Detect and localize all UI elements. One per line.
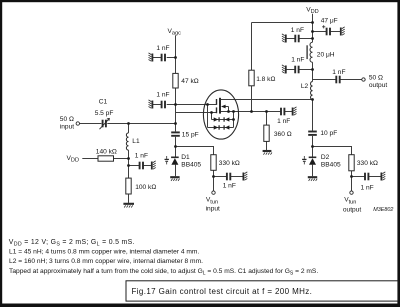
- wire 10pF to D2: [312, 136, 314, 157]
- svg-text:BB405: BB405: [321, 161, 341, 168]
- svg-text:L1: L1: [132, 138, 140, 145]
- wire VDD top column: [312, 14, 314, 43]
- resistor 360: [264, 125, 269, 141]
- svg-text:100 kΩ: 100 kΩ: [135, 184, 156, 191]
- node gate2 bias junction: [174, 103, 177, 106]
- wire 140k to node B: [114, 158, 129, 160]
- capacitor 1nF vtun input: [227, 173, 230, 181]
- diode D2 BB405: [302, 156, 316, 165]
- svg-text:C1: C1: [99, 98, 108, 105]
- wire 47k to input column: [175, 88, 177, 124]
- wire 1nF to 20uH node: [299, 69, 313, 71]
- capacitor 1nF 20uH: [295, 66, 298, 74]
- wire Vagc lead: [175, 36, 177, 74]
- wire gate2 diode vertical: [207, 105, 209, 128]
- wire 1.8k bottom: [251, 86, 253, 112]
- wire ground to 1nF 20uH: [286, 69, 295, 71]
- node D1 branch junction: [174, 145, 177, 148]
- node VDD rail junction: [311, 21, 314, 24]
- svg-text:output: output: [369, 82, 388, 89]
- wire 1nF to ground vtun out: [369, 176, 381, 178]
- node input-column junction: [174, 122, 177, 125]
- protection diode row1 left bar: [218, 117, 220, 121]
- wire source node to 360: [266, 112, 268, 126]
- terminal 50ohm input: [76, 122, 79, 125]
- ground 47uF: [341, 27, 345, 36]
- svg-text:140 kΩ: 140 kΩ: [96, 148, 117, 155]
- wire C1 to node A: [107, 123, 175, 125]
- wire vtun out node to 1nF: [352, 176, 366, 178]
- wire bulk horizontal: [225, 106, 229, 108]
- node bulk junction: [227, 110, 230, 113]
- ground gate2 1nF: [149, 100, 153, 109]
- svg-text:50 Ω: 50 Ω: [369, 74, 383, 81]
- svg-text:1 nF: 1 nF: [291, 56, 304, 63]
- svg-text:1 nF: 1 nF: [156, 45, 169, 52]
- transistor channel bar: [219, 98, 221, 114]
- capacitor 1nF gate2: [162, 101, 165, 109]
- node 140k junction: [127, 157, 130, 160]
- wire 1nF g2 to node: [167, 104, 176, 106]
- wire 100k to ground: [128, 194, 130, 203]
- ground 360: [263, 151, 272, 155]
- wire source: [221, 111, 267, 113]
- node vtun input junction: [212, 175, 215, 178]
- capacitor 1nF vdd: [295, 35, 298, 43]
- wire node A to 15pF: [175, 124, 177, 132]
- resistor 47k: [173, 73, 178, 88]
- svg-text:15 pF: 15 pF: [182, 131, 199, 138]
- capacitor 10pF: [308, 132, 317, 135]
- wire node A to L1: [128, 124, 130, 133]
- ground 100k: [123, 204, 134, 208]
- svg-text:L2 = 160 nH; 3 turns 0.8 mm co: L2 = 160 nH; 3 turns 0.8 mm copper wire,…: [9, 258, 203, 265]
- diode D1 BB405: [165, 156, 179, 165]
- wire 360 to ground: [266, 141, 268, 150]
- svg-text:L2: L2: [301, 83, 309, 90]
- svg-text:1 nF: 1 nF: [361, 185, 374, 192]
- svg-text:M3E802: M3E802: [373, 207, 393, 213]
- node 1.8k source junction: [250, 110, 253, 113]
- ground agc top 1nF: [149, 53, 153, 62]
- node D2 branch junction: [311, 145, 314, 148]
- wire 1nF to ground right: [285, 111, 293, 113]
- wire 330k left bottom: [213, 170, 215, 191]
- protection diode row1 right bar: [223, 117, 225, 121]
- wire source diode vertical: [233, 112, 235, 128]
- wire source node to 1nF: [267, 111, 281, 113]
- ground D1: [170, 177, 179, 181]
- terminal 50ohm output: [362, 78, 365, 81]
- wire ground to 1nF agc: [153, 57, 162, 59]
- svg-text:5.5 pF: 5.5 pF: [95, 110, 114, 117]
- wire vtun in node to 1nF: [214, 176, 227, 178]
- svg-text:330 kΩ: 330 kΩ: [219, 160, 240, 167]
- inductor L1: [126, 133, 128, 150]
- wire drain node to 10pF: [312, 100, 314, 131]
- svg-text:output: output: [343, 206, 362, 213]
- node gate2 inner junction: [206, 103, 209, 106]
- svg-text:10 pF: 10 pF: [320, 130, 337, 137]
- wire output cap to terminal: [340, 79, 362, 81]
- wire diode row2: [208, 127, 234, 129]
- wire ground to 1nF vdd: [286, 38, 295, 40]
- svg-text:1 nF: 1 nF: [332, 69, 345, 76]
- resistor 100k: [126, 178, 131, 194]
- wire drain: [221, 99, 313, 101]
- node vtun output junction: [350, 175, 353, 178]
- ground vtun output 1nF: [381, 172, 385, 181]
- svg-text:1 nF: 1 nF: [135, 153, 148, 160]
- wire 47uF to ground: [330, 31, 340, 33]
- svg-text:360 Ω: 360 Ω: [274, 131, 292, 138]
- svg-text:50 Ω: 50 Ω: [60, 116, 74, 123]
- node gate1 inner junction: [210, 111, 213, 114]
- node diode row1 junction: [232, 118, 235, 121]
- wire gate1: [176, 112, 217, 114]
- resistor 330k left: [211, 155, 216, 171]
- wire 1nF agc to node: [167, 57, 176, 59]
- capacitor 1nF agc top: [162, 54, 165, 62]
- protection diode row2 right bar: [223, 125, 225, 129]
- node 20uH bottom junction: [311, 68, 314, 71]
- capacitor 1nF output: [336, 76, 339, 84]
- wire 20uH bottom to L2: [312, 62, 314, 81]
- capacitor 1nF bias: [140, 162, 143, 170]
- protection diode row2 left bar: [218, 125, 220, 129]
- transistor bulk arrow: [221, 105, 226, 109]
- capacitor 47uF: [327, 28, 330, 36]
- polarity plus 47uF: [322, 25, 325, 28]
- capacitor 1nF vtun output: [365, 173, 368, 181]
- ground 20uH 1nF: [282, 65, 286, 74]
- wire D2 to ground: [312, 165, 314, 177]
- wire 1.8k top: [251, 23, 253, 71]
- wire gate2: [176, 104, 217, 106]
- node source diode junction: [232, 110, 235, 113]
- transistor gate2 bar: [216, 99, 218, 105]
- wire D1 to ground: [175, 165, 177, 177]
- wire L1 to 100k: [128, 150, 130, 178]
- node 1nF bias junction: [127, 164, 130, 167]
- resistor 1.8k: [249, 70, 254, 86]
- capacitor 1nF source: [281, 108, 284, 116]
- ground vdd 1nF: [282, 34, 286, 43]
- svg-text:1 nF: 1 nF: [291, 27, 304, 34]
- svg-text:330 kΩ: 330 kΩ: [357, 160, 378, 167]
- svg-text:1.8 kΩ: 1.8 kΩ: [256, 76, 275, 83]
- node 1nF vdd junction: [311, 37, 314, 40]
- wire node to 47uF: [313, 31, 327, 33]
- wire 330k right bottom: [351, 171, 353, 191]
- protection diode row1 left: [214, 117, 219, 121]
- protection diode row1 right: [225, 117, 230, 121]
- svg-text:L1 = 45 nH; 4 turns 0.8 mm cop: L1 = 45 nH; 4 turns 0.8 mm copper wire, …: [9, 249, 199, 256]
- wire D2 node to 330k right: [313, 147, 352, 155]
- wire VDD rail: [252, 22, 313, 24]
- svg-text:D2: D2: [321, 154, 330, 161]
- terminal Vtun input: [212, 191, 215, 194]
- wire 1nF vdd to column: [299, 38, 313, 40]
- ground D2: [308, 177, 317, 181]
- resistor 330k right: [349, 155, 354, 171]
- protection diode row2 right: [225, 125, 230, 129]
- wire 1nF to ground vtun in: [230, 176, 243, 178]
- svg-text:20 μH: 20 μH: [317, 51, 335, 58]
- node agc 1nF junction: [174, 56, 177, 59]
- inductor L2: [311, 82, 313, 100]
- ground bias 1nF: [152, 161, 156, 170]
- svg-text:input: input: [206, 206, 220, 213]
- wire gate1 diode vertical: [211, 113, 213, 120]
- wire 15pF to D1 node: [175, 137, 177, 157]
- caption box: [126, 281, 398, 301]
- transistor U1 dual-gate MOSFET envelope: [203, 90, 238, 139]
- svg-text:47 kΩ: 47 kΩ: [181, 78, 198, 85]
- ground source 1nF: [293, 107, 297, 116]
- wire bulk vertical: [228, 107, 230, 112]
- node 360 junction: [265, 110, 268, 113]
- svg-text:47 μF: 47 μF: [321, 18, 338, 25]
- terminal Vtun output: [350, 191, 353, 194]
- resistor 140k: [98, 156, 114, 161]
- svg-text:BB405: BB405: [181, 162, 201, 169]
- wire diode row1: [212, 119, 234, 121]
- wire D1 node to 330k left: [176, 147, 214, 155]
- transistor gate1 bar: [216, 107, 218, 113]
- protection diode row2 left: [214, 125, 219, 129]
- node A junction: [127, 122, 130, 125]
- svg-text:Fig.17 Gain control test circ: Fig.17 Gain control test circuit at f = …: [132, 287, 313, 296]
- wire VDD to 140k: [82, 158, 98, 160]
- wire node B to 1nF bias: [129, 165, 140, 167]
- wire input terminal to C1: [80, 123, 102, 125]
- capacitor C1 5.5pF trimmer: [100, 118, 110, 129]
- svg-text:1 nF: 1 nF: [223, 183, 236, 190]
- svg-text:input: input: [60, 124, 74, 131]
- wire tap to output cap: [313, 79, 337, 81]
- node 47uF junction: [311, 30, 314, 33]
- svg-text:1 nF: 1 nF: [277, 118, 290, 125]
- svg-text:D1: D1: [181, 154, 190, 161]
- inductor 20uH: [307, 42, 312, 62]
- wire ground to 1nF g2: [153, 104, 162, 106]
- capacitor 15pF: [171, 132, 180, 135]
- node drain junction: [311, 98, 314, 101]
- wire 1nF bias to ground: [143, 165, 151, 167]
- svg-text:1 nF: 1 nF: [156, 92, 169, 99]
- ground vtun input 1nF: [243, 172, 247, 181]
